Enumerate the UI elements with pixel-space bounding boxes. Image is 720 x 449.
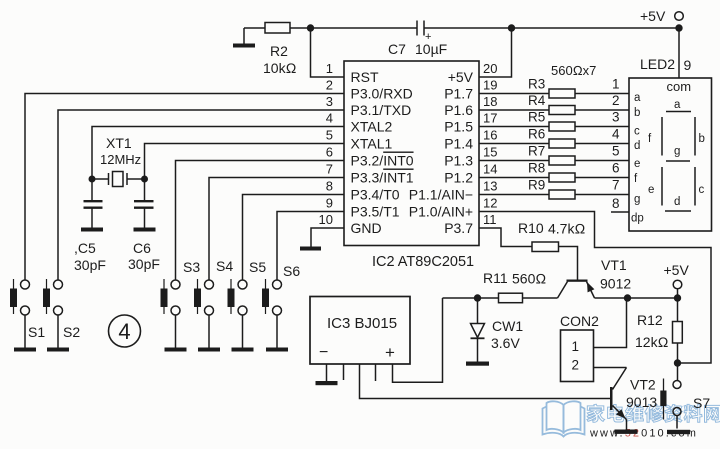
svg-text:17: 17 (483, 111, 497, 126)
svg-text:P1.1/AIN−: P1.1/AIN− (409, 187, 473, 203)
wire IC3 pin3 to VT2 base (360, 364, 611, 399)
wire pin5 to XTAL (145, 144, 345, 177)
svg-text:R4: R4 (528, 93, 546, 108)
svg-text:c: c (699, 184, 705, 196)
pin 11 P3.7 (444, 212, 496, 236)
svg-text:12MHz: 12MHz (100, 152, 141, 167)
node junction R12/S7/AIN+ (674, 359, 681, 366)
svg-text:4: 4 (118, 319, 130, 344)
pin 7 P3.3/INT1 (326, 162, 414, 186)
wire IC3 pin1 to ground (326, 364, 328, 381)
resistor R11 (483, 270, 546, 303)
svg-text:g: g (674, 146, 680, 158)
wire C7 to +5V terminal (424, 27, 679, 29)
resistor R4 (479, 93, 629, 115)
svg-text:1: 1 (326, 61, 333, 76)
pin 13 P1.1/AIN- (409, 179, 498, 203)
wire pin2 to S1 (25, 94, 344, 281)
svg-text:R11: R11 (483, 270, 508, 286)
svg-text:c: c (634, 126, 640, 138)
svg-text:CON2: CON2 (560, 313, 599, 329)
zener diode CW1 (466, 298, 523, 366)
svg-text:R5: R5 (528, 110, 545, 125)
7seg segment a (666, 99, 691, 112)
resistor R5 (479, 110, 629, 132)
svg-text:560Ω: 560Ω (512, 271, 546, 287)
ground C5 (81, 228, 103, 232)
svg-text:R3: R3 (528, 77, 545, 92)
svg-text:15: 15 (483, 145, 497, 160)
svg-text:P1.2: P1.2 (444, 170, 473, 186)
pin 12 P1.0/AIN+ (409, 196, 498, 220)
svg-text:6: 6 (612, 161, 620, 176)
pin 19 P1.7 (444, 78, 497, 102)
node circled 4 (109, 315, 141, 347)
svg-text:S6: S6 (283, 263, 300, 279)
svg-text:3.6V: 3.6V (491, 335, 520, 351)
switch S5 (228, 259, 267, 352)
watermark book icon (543, 401, 585, 436)
svg-text:XT1: XT1 (106, 135, 132, 151)
switch S6 (262, 263, 300, 352)
pin 20 +5V (448, 61, 498, 85)
svg-text:P3.4/T0: P3.4/T0 (351, 187, 400, 203)
svg-text:b: b (699, 133, 705, 145)
wire LED2 pin 9 (678, 28, 680, 78)
7seg segment c (695, 167, 705, 206)
svg-text:560Ωx7: 560Ωx7 (551, 63, 596, 78)
svg-text:e: e (634, 158, 640, 170)
switch S7 (660, 379, 710, 435)
svg-text:3: 3 (326, 94, 333, 109)
svg-text:P1.5: P1.5 (444, 119, 473, 135)
svg-text:P3.0/RXD: P3.0/RXD (351, 86, 413, 102)
svg-text:b: b (634, 107, 640, 119)
svg-text:6: 6 (326, 145, 333, 160)
switch S3 (161, 259, 201, 352)
svg-text:LED2: LED2 (640, 56, 675, 72)
svg-text:1: 1 (572, 339, 580, 354)
resistor R2 (263, 23, 297, 77)
svg-text:P1.3: P1.3 (444, 153, 473, 169)
svg-text:dp: dp (631, 213, 644, 225)
wire VT1 emitter rail (595, 297, 678, 299)
capacitor C7 (388, 21, 447, 58)
pin 10 GND (319, 212, 382, 236)
wire CON2 pin1 up to emitter rail (594, 298, 627, 348)
svg-text:f: f (648, 133, 652, 145)
svg-text:XTAL1: XTAL1 (351, 136, 393, 152)
svg-text:16: 16 (483, 128, 497, 143)
svg-text:30pF: 30pF (128, 256, 160, 272)
svg-text:IC3 BJ015: IC3 BJ015 (327, 315, 397, 332)
7seg segment e (648, 167, 662, 206)
wire CON2 pin2 to VT2 collector (594, 367, 627, 369)
svg-text:P3.5/T1: P3.5/T1 (351, 204, 400, 220)
svg-text:9: 9 (326, 196, 333, 211)
pin 16 P1.4 (444, 128, 497, 152)
svg-text:S5: S5 (249, 259, 266, 275)
svg-text:3: 3 (612, 110, 620, 125)
svg-text:S1: S1 (28, 324, 45, 340)
+5V terminal mid right (664, 262, 690, 289)
svg-text:RST: RST (351, 69, 379, 85)
svg-text:R2: R2 (270, 43, 288, 59)
node junction CON2 pin1 (624, 294, 631, 301)
svg-text:d: d (634, 140, 640, 152)
wire pin12 AIN+ sense (479, 212, 711, 364)
resistor R3 (479, 77, 629, 99)
wire pin20 from rail (479, 28, 512, 77)
svg-text:9: 9 (684, 57, 692, 73)
transistor VT2 9013 (610, 368, 657, 430)
svg-text:VT2: VT2 (630, 377, 656, 393)
pin 14 P1.2 (444, 162, 497, 186)
7seg segment d (665, 196, 691, 211)
node junction R11/CW1/IC3 (474, 294, 481, 301)
switch S4 (194, 258, 233, 352)
svg-text:10: 10 (319, 212, 333, 227)
wire R2 to C7 (290, 27, 417, 29)
svg-text:XTAL2: XTAL2 (351, 119, 393, 135)
svg-text:VT1: VT1 (601, 257, 627, 273)
resistor R6 (479, 127, 629, 149)
svg-text:2: 2 (612, 93, 620, 108)
wire dp stub pin 8 (611, 196, 629, 212)
crystal XT1 (89, 135, 149, 187)
wire pin3 to S2 (58, 110, 344, 280)
svg-text:10µF: 10µF (415, 41, 447, 57)
wire junction to R12 (677, 298, 679, 322)
svg-text:GND: GND (351, 220, 382, 236)
node junction LED com (675, 24, 682, 31)
node junction R2/pin1 (307, 24, 314, 31)
svg-text:+5V: +5V (664, 262, 690, 278)
svg-text:+: + (385, 343, 395, 362)
svg-text:5: 5 (326, 128, 333, 143)
pin 5 XTAL1 (326, 128, 393, 152)
svg-text:P3.7: P3.7 (444, 220, 473, 236)
pin 9 P3.5/T1 (326, 196, 400, 220)
capacitor C5 (74, 201, 106, 273)
svg-text:P3.1/TXD: P3.1/TXD (351, 102, 412, 118)
7seg segment f (648, 117, 662, 156)
svg-text:2: 2 (326, 78, 333, 93)
wire pin9 to S6 (277, 212, 344, 281)
svg-text:+5V: +5V (640, 8, 666, 24)
wire pin1 from rail (311, 28, 345, 77)
svg-text:R10: R10 (518, 220, 544, 236)
svg-text:7: 7 (612, 178, 620, 193)
wire R10 to VT1 base (559, 247, 578, 280)
wire pin7 to S4 (209, 178, 344, 281)
IC IC3 BJ015 (310, 297, 410, 365)
ground IC2 pin10 (300, 247, 321, 251)
svg-text:R12: R12 (637, 312, 663, 328)
svg-text:9013: 9013 (626, 394, 657, 410)
wire VT1 collector to R11 (523, 297, 558, 299)
svg-text:4.7kΩ: 4.7kΩ (548, 221, 585, 237)
wire XTAL right leg down (144, 179, 146, 201)
svg-text:4: 4 (326, 111, 333, 126)
svg-text:+5V: +5V (448, 69, 474, 85)
pin 8 P3.4/T0 (326, 179, 400, 203)
svg-text:P3.2/INT0: P3.2/INT0 (351, 153, 414, 169)
svg-text:CW1: CW1 (492, 318, 523, 334)
wire +5V to junction (677, 289, 679, 298)
svg-text:2: 2 (572, 358, 580, 373)
svg-text:P1.6: P1.6 (444, 102, 473, 118)
svg-text:R6: R6 (528, 127, 545, 142)
svg-text:R7: R7 (528, 144, 545, 159)
svg-text:8: 8 (326, 179, 333, 194)
node junction pin20 branch (508, 24, 515, 31)
pin 2 P3.0/RXD (326, 78, 413, 102)
wire IC3 pin4 stub (375, 364, 377, 381)
svg-text:e: e (648, 184, 654, 196)
7seg segment b (695, 117, 705, 156)
svg-text:P1.0/AIN+: P1.0/AIN+ (409, 204, 473, 220)
svg-text:P1.4: P1.4 (444, 136, 473, 152)
svg-text:R9: R9 (528, 178, 545, 193)
svg-text:4: 4 (612, 127, 620, 142)
resistor R10 (518, 220, 585, 252)
wire pin6 to S3 (176, 161, 345, 281)
transistor VT1 9012 (558, 257, 632, 298)
wire top rail +5V (244, 27, 265, 29)
svg-text:C7: C7 (388, 41, 406, 57)
ground at R2 left (233, 28, 255, 48)
svg-text:−: − (319, 344, 328, 361)
wire C6 to ground (144, 208, 146, 228)
svg-text:C6: C6 (133, 240, 151, 256)
wire IC3 plus to R11 junction (393, 298, 443, 382)
svg-text:com: com (667, 79, 692, 94)
wire C5 to ground (91, 208, 93, 228)
wire R12 to S7 node (677, 343, 679, 381)
+5V terminal top right (640, 8, 683, 24)
svg-text:S4: S4 (216, 258, 233, 274)
svg-text:S3: S3 (183, 259, 200, 275)
wire XTAL left leg down (91, 179, 93, 201)
svg-text:20: 20 (483, 61, 497, 76)
svg-text:13: 13 (483, 179, 497, 194)
svg-text:S2: S2 (63, 324, 80, 340)
svg-text:f: f (634, 173, 638, 185)
svg-text:18: 18 (483, 94, 497, 109)
pin 6 P3.2/INT0 (326, 145, 414, 169)
svg-text:11: 11 (483, 212, 497, 227)
svg-text:d: d (674, 196, 680, 208)
7seg segment g (666, 146, 690, 162)
node junction +5V mid (674, 294, 681, 301)
connector CON2 (560, 313, 599, 382)
svg-text:14: 14 (483, 162, 497, 177)
svg-text:12kΩ: 12kΩ (635, 334, 669, 350)
pin 1 RST (326, 61, 379, 85)
switch S1 (10, 279, 45, 352)
svg-text:R8: R8 (528, 161, 545, 176)
svg-text:5: 5 (612, 144, 620, 159)
pin 4 XTAL2 (326, 111, 393, 135)
svg-text:P1.7: P1.7 (444, 86, 473, 102)
svg-text:,C5: ,C5 (74, 240, 96, 256)
pin 15 P1.3 (444, 145, 497, 169)
wire pin10 GND (311, 228, 344, 247)
svg-text:7: 7 (326, 162, 333, 177)
svg-text:g: g (634, 194, 640, 206)
ground C6 (134, 228, 156, 232)
pin 17 P1.5 (444, 111, 497, 135)
switch S2 (43, 279, 80, 352)
svg-text:P3.3/INT1: P3.3/INT1 (351, 170, 414, 186)
display LED2 body (629, 56, 712, 231)
watermark text (587, 404, 720, 422)
resistor R12 (635, 312, 682, 350)
svg-text:IC2 AT89C2051: IC2 AT89C2051 (372, 254, 474, 270)
svg-text:a: a (634, 92, 641, 104)
pin 18 P1.6 (444, 94, 497, 118)
wire pin4 to XTAL (92, 127, 344, 177)
ground IC3 (316, 381, 338, 385)
resistor R9 (479, 178, 629, 200)
svg-text:8: 8 (612, 196, 620, 211)
IC U-IC2 AT89C2051 body (344, 61, 479, 270)
wire IC3 pin2 stub (343, 364, 345, 380)
wire R11 to junction (443, 297, 499, 299)
svg-text:S7: S7 (693, 395, 710, 411)
svg-text:1: 1 (612, 77, 620, 92)
svg-text:12: 12 (483, 196, 497, 211)
resistor R7 (479, 144, 629, 166)
svg-text:9012: 9012 (600, 276, 631, 292)
svg-text:10kΩ: 10kΩ (263, 60, 297, 76)
svg-text:a: a (674, 99, 681, 111)
wire pin8 to S5 (243, 195, 345, 281)
svg-text:19: 19 (483, 78, 497, 93)
capacitor C6 (128, 201, 160, 272)
resistor R8 (479, 161, 629, 183)
ground VT2 emitter (615, 430, 638, 434)
pin 3 P3.1/TXD (326, 94, 411, 118)
wire pin11 to R10 (479, 228, 532, 247)
svg-text:30pF: 30pF (74, 257, 106, 273)
